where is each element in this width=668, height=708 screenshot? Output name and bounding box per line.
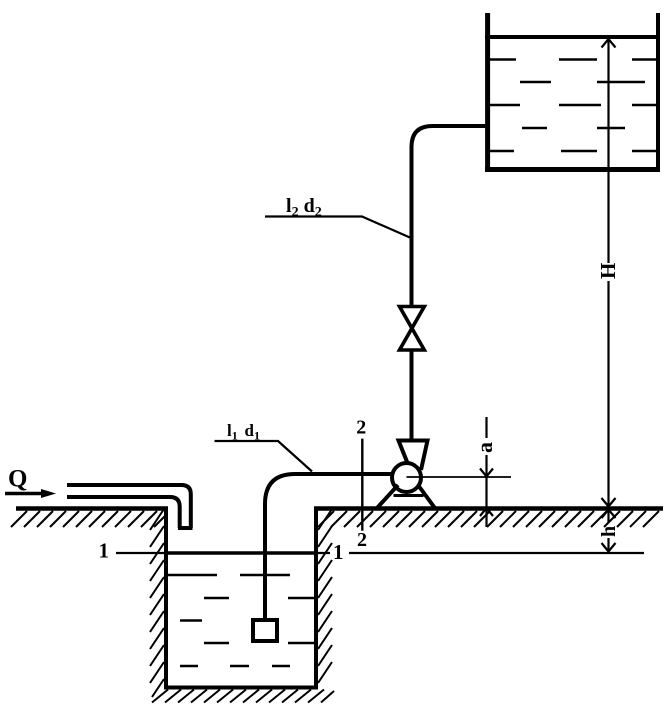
sump water dashes (166, 575, 314, 666)
upper tank water surface (485, 35, 660, 39)
pump base right leg (418, 485, 435, 508)
a arrow up (at ground) (480, 508, 493, 516)
upper tank left wall (485, 13, 490, 172)
suction pipe l1 d1 (horizontal from pump, bend down into sump, to strainer) (265, 474, 392, 618)
section line 2-2 (361, 439, 363, 531)
sump water surface (166, 551, 316, 555)
dimension line a (485, 417, 487, 438)
pump base left leg (378, 485, 399, 508)
h arrow down (at water level 1-1) (602, 543, 616, 552)
sump left wall (164, 507, 168, 689)
upper tank water dashes (490, 60, 658, 152)
svg-text:1: 1 (333, 540, 344, 564)
inflow pipe outer wall (67, 485, 191, 528)
svg-text:H: H (596, 263, 620, 279)
upper tank bottom (485, 167, 660, 172)
ground line right (314, 506, 663, 511)
flow arrow Q (5, 492, 44, 495)
upper tank right wall (656, 13, 660, 172)
svg-text:Q: Q (8, 466, 27, 493)
dimension line H (607, 39, 609, 263)
discharge pipe l2 d2 (vertical riser + bend into tank) (412, 126, 491, 440)
h arrow up (at ground) (602, 510, 616, 519)
svg-text:a: a (472, 442, 497, 453)
pump discharge cone (399, 441, 428, 471)
svg-text:2: 2 (357, 529, 367, 551)
pump base crossbar (394, 494, 424, 497)
strainer box (foot valve) (253, 620, 277, 641)
pump axis reference line (407, 476, 512, 478)
H arrow down (at ground) (602, 498, 616, 507)
svg-text:h: h (598, 526, 620, 537)
a arrow down (at pump axis) (480, 469, 493, 477)
sump right wall (314, 507, 318, 689)
sump bottom hatching (152, 690, 334, 703)
section line 1-1 (116, 552, 330, 554)
valve (gate valve bowtie) (400, 307, 425, 351)
svg-text:1: 1 (99, 539, 110, 563)
svg-text:2: 2 (356, 417, 366, 439)
leader line l1 d1 (215, 441, 313, 472)
H arrow up (at tank water surface) (602, 39, 616, 48)
dimension line h (607, 510, 609, 523)
ground hatching right (318, 511, 659, 527)
sump right wall hatching (318, 509, 332, 683)
sump left wall hatching (150, 509, 164, 697)
sump bottom (164, 686, 318, 690)
leader line l2 d2 (265, 217, 411, 239)
inflow pipe end cap (178, 526, 193, 530)
inflow pipe inner wall (67, 497, 180, 528)
ground line left (16, 506, 168, 511)
pump body circle (392, 463, 421, 492)
ground hatching left (11, 511, 166, 527)
